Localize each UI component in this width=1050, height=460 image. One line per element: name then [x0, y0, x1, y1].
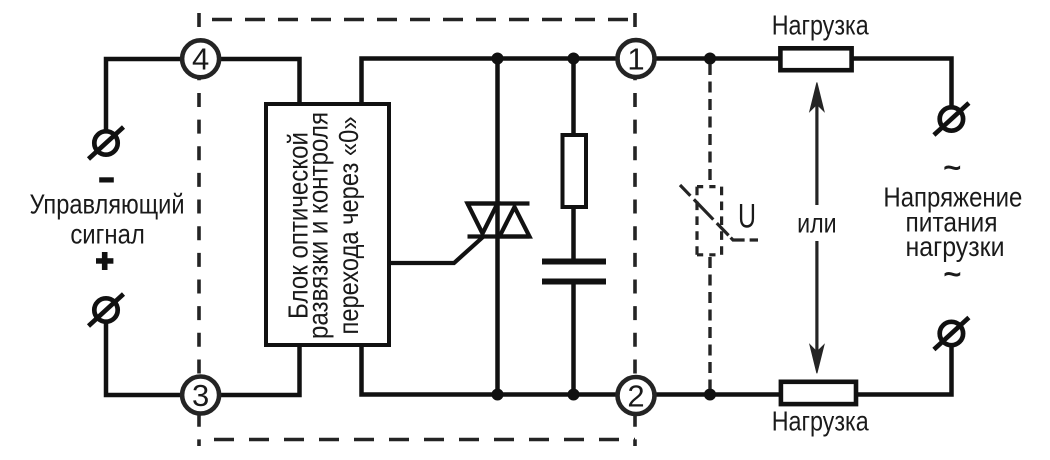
svg-text:Нагрузка: Нагрузка	[772, 9, 869, 40]
double arrow (either load position)	[810, 83, 824, 374]
varistor strike line (dashed)	[680, 185, 758, 240]
svg-text:2: 2	[627, 378, 644, 413]
load terminal bottom (circle with slash)	[934, 318, 969, 350]
wire: terminal 4 to optocoupler top-left pin	[200, 59, 300, 102]
load resistor top	[780, 48, 851, 70]
varistor RU1 body (dashed rect)	[697, 187, 722, 255]
svg-text:~: ~	[944, 258, 962, 291]
wire: optocoupler bottom-right pin to bottom rail and terminal 2	[362, 346, 637, 395]
capacitor C1 (snubber)	[542, 262, 606, 282]
triac VS1	[466, 204, 530, 237]
resistor R1 (snubber)	[563, 135, 587, 207]
dashed SSR module boundary right edge	[633, 13, 637, 446]
varistor RU1 top lead (dashed)	[708, 64, 711, 186]
wire: triac branch vertical	[495, 59, 500, 395]
wire: control plus terminal down and right to terminal 3	[106, 321, 200, 395]
svg-text:или: или	[797, 207, 837, 238]
wire: resistor to capacitor lead	[571, 206, 576, 262]
svg-text:перехода через «0»: перехода через «0»	[333, 117, 364, 335]
dashed SSR module boundary top edge	[199, 18, 635, 22]
svg-text:3: 3	[192, 378, 209, 413]
junction: bottom rail / capacitor	[568, 389, 580, 401]
svg-text:1: 1	[627, 41, 644, 76]
wire: optocoupler top-right pin to top rail and terminal 1	[362, 59, 637, 103]
junction: bottom rail / varistor	[704, 389, 716, 401]
svg-text:~: ~	[944, 152, 962, 185]
label: Управляющий сигнал	[30, 189, 185, 250]
svg-text:4: 4	[192, 42, 209, 77]
junction: top rail / resistor	[568, 53, 580, 65]
load resistor bottom	[781, 382, 856, 404]
control terminal bottom (circle with slash)	[89, 294, 124, 326]
wire: terminal 2 right to bottom load and right terminal	[636, 344, 952, 395]
svg-text:U: U	[738, 198, 756, 236]
junction: bottom rail / triac	[492, 389, 504, 401]
svg-text:Нагрузка: Нагрузка	[772, 406, 869, 437]
wire: control minus terminal up and right to terminal 4	[106, 59, 200, 132]
wire: terminal 3 to optocoupler bottom-left pin	[200, 346, 300, 395]
terminal 4	[182, 40, 219, 77]
optocoupler block: Блок оптической развязки и контроля перехода через «0»	[266, 104, 389, 345]
terminal 3	[182, 377, 219, 414]
wire: terminal 1 right to top load and right terminal	[636, 59, 952, 109]
label: Напряжение питания нагрузки	[883, 181, 1022, 262]
load terminal top (circle with slash)	[934, 103, 969, 135]
svg-text:развязки и контроля: развязки и контроля	[303, 112, 334, 339]
dashed SSR module boundary bottom edge	[199, 438, 635, 442]
wire: triac gate lead	[391, 237, 484, 264]
varistor RU1 bottom lead (dashed)	[708, 257, 711, 389]
junction: top rail / triac	[492, 53, 504, 65]
control terminal top (circle with slash)	[89, 127, 124, 159]
dashed SSR module boundary left edge	[197, 13, 201, 446]
plus sign of control signal	[96, 252, 113, 270]
terminal 1	[618, 40, 655, 77]
wire: snubber resistor top lead	[571, 59, 576, 137]
minus sign of control signal	[99, 177, 114, 182]
svg-text:Управляющий: Управляющий	[30, 189, 185, 220]
terminal 2	[618, 377, 655, 414]
wire: capacitor bottom lead	[571, 281, 576, 395]
junction: top rail / varistor	[704, 53, 716, 65]
svg-text:сигнал: сигнал	[70, 219, 145, 250]
